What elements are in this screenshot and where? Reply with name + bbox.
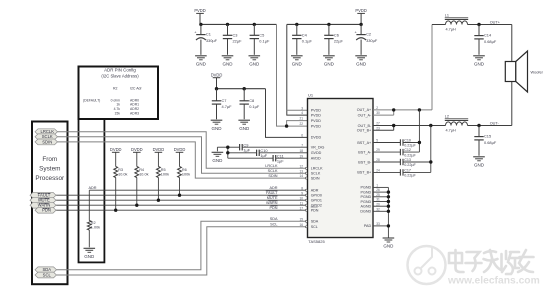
watermark logo circle <box>408 246 446 284</box>
junction OUT- / C15 <box>477 124 480 127</box>
tag WARN <box>30 202 56 208</box>
svg-text:OUT_A+: OUT_A+ <box>357 108 371 112</box>
inductor L1 4.7uH <box>445 13 468 31</box>
ground (C8) <box>238 120 250 131</box>
svg-text:C1: C1 <box>206 32 211 37</box>
ground (C2) <box>355 56 367 67</box>
tag SDA <box>35 267 57 273</box>
svg-text:GND: GND <box>324 61 335 66</box>
svg-text:OUT_B+: OUT_B+ <box>357 129 371 133</box>
svg-text:BST_A-: BST_A- <box>358 150 372 154</box>
pin numbers U1 right <box>376 106 380 226</box>
wire FAULT <box>56 194 308 196</box>
junction ground collector 5 <box>387 210 390 213</box>
svg-text:0.22µF: 0.22µF <box>404 144 416 148</box>
svg-text:4.7µF: 4.7µF <box>222 104 233 109</box>
wire PVDD rail 1 <box>200 24 308 126</box>
svg-text:24: 24 <box>376 169 380 173</box>
svg-text:PAD: PAD <box>364 224 372 228</box>
capacitor C13 0.22uF (BST_B-) <box>373 158 431 167</box>
svg-text:SDIN: SDIN <box>268 174 277 178</box>
net label PDN <box>269 206 277 210</box>
inductor L2 4.7uH <box>445 114 468 132</box>
svg-text:C5: C5 <box>259 32 264 37</box>
wire DVDD rail <box>217 89 308 138</box>
svg-text:6: 6 <box>301 134 303 138</box>
svg-text:DVDD: DVDD <box>153 147 165 152</box>
svg-text:C12: C12 <box>404 148 411 152</box>
annotation box From System Processor <box>32 122 68 285</box>
tag PDN <box>35 207 56 213</box>
resistor R6 100k <box>178 153 191 195</box>
svg-text:PDN: PDN <box>269 206 277 210</box>
svg-text:C6: C6 <box>334 32 339 37</box>
junction PVDD rail / C3 <box>226 23 229 26</box>
junction PVDD rail / C1 <box>199 23 202 26</box>
svg-text:16: 16 <box>299 223 303 227</box>
svg-text:4.7µH: 4.7µH <box>446 28 456 32</box>
svg-text:GND: GND <box>474 162 485 167</box>
net label WARN <box>266 201 278 205</box>
junction ground collector 3 <box>387 200 390 203</box>
svg-text:PGND: PGND <box>361 186 372 190</box>
svg-text:C17: C17 <box>404 168 411 172</box>
junction OUT_B pins tie <box>392 124 395 127</box>
svg-text:22µF: 22µF <box>334 39 344 44</box>
svg-text:PGND: PGND <box>361 190 372 194</box>
tag SCL <box>35 272 57 278</box>
svg-text:4: 4 <box>301 111 303 115</box>
net label FAULT <box>266 191 278 195</box>
svg-text:19: 19 <box>299 154 303 158</box>
svg-text:From: From <box>42 156 57 163</box>
junction bootstrap B / C13 <box>429 160 432 163</box>
svg-text:GVDD: GVDD <box>311 151 322 155</box>
svg-text:SDA: SDA <box>270 217 278 221</box>
power flag PVDD (left cluster) <box>194 8 205 24</box>
svg-text:(DEFAULT): (DEFAULT) <box>83 98 100 102</box>
svg-text:GND: GND <box>239 126 250 131</box>
svg-text:20: 20 <box>376 202 380 206</box>
svg-text:1µF: 1µF <box>277 158 284 163</box>
svg-text:PVDD: PVDD <box>311 124 322 128</box>
svg-text:SCL: SCL <box>43 272 52 277</box>
svg-text:R3: R3 <box>118 168 123 172</box>
svg-text:0.22µF: 0.22µF <box>404 174 416 178</box>
junction bootstrap A / C10 <box>418 141 421 144</box>
capacitor C10 0.22uF (BST_A+) <box>373 139 419 148</box>
svg-text:ADR PIN Config: ADR PIN Config <box>104 67 136 72</box>
svg-text:C4: C4 <box>302 32 308 37</box>
ground (C6) <box>323 56 335 67</box>
svg-text:100k: 100k <box>182 172 190 176</box>
junction OUT_A pins tie <box>392 108 395 111</box>
capacitor C17 0.22uF (BST_B+) <box>373 168 431 177</box>
svg-text:MUTE: MUTE <box>267 196 278 200</box>
svg-text:SDA: SDA <box>311 220 319 224</box>
svg-text:FAULT: FAULT <box>266 191 278 195</box>
net label SDA <box>270 217 278 221</box>
svg-text:U1: U1 <box>308 92 314 97</box>
capacitor C1 330uF (polarized) <box>194 24 217 54</box>
wire WARN <box>56 204 308 206</box>
capacitor C7 4.7uF <box>212 89 232 120</box>
svg-text:AGND: AGND <box>361 205 372 209</box>
svg-text:0.1µF: 0.1µF <box>259 39 270 44</box>
wire PDN <box>56 209 308 211</box>
junction OUT_B / bootstrap B <box>429 124 432 127</box>
svg-text:13: 13 <box>299 169 303 173</box>
svg-text:GPIO1: GPIO1 <box>311 199 322 203</box>
net label OUT- <box>490 121 500 125</box>
svg-text:PVDD: PVDD <box>311 119 322 123</box>
junction PVDD rail 2 / C2 <box>359 23 362 26</box>
net label OUT+ <box>490 20 501 24</box>
svg-text:PDN: PDN <box>311 209 319 213</box>
capacitor C2 330uF (polarized) <box>355 24 378 54</box>
power flag DVDD (R5) <box>153 147 165 153</box>
tag LRCLK <box>35 129 58 135</box>
svg-text:Processor: Processor <box>35 175 65 182</box>
junction R5 to wire <box>157 199 160 202</box>
capacitor C8 0.1uF <box>240 89 260 120</box>
svg-text:22µF: 22µF <box>233 39 243 44</box>
svg-text:GND: GND <box>212 126 223 131</box>
svg-text:330µF: 330µF <box>366 38 378 43</box>
svg-text:OUT+: OUT+ <box>490 20 501 24</box>
tag SCLK <box>35 134 58 140</box>
resistor R3 10.0k <box>114 153 128 210</box>
svg-text:33: 33 <box>376 222 380 226</box>
svg-text:8: 8 <box>301 186 303 190</box>
junction OUT_A / bootstrap A <box>418 108 421 111</box>
svg-text:23: 23 <box>376 126 380 130</box>
watermark url text <box>447 276 540 287</box>
wire GVDD <box>228 152 308 154</box>
svg-text:DVDD: DVDD <box>110 147 122 152</box>
junction DVDD rail / C8 <box>243 87 246 90</box>
svg-text:SCLK: SCLK <box>268 169 278 173</box>
wire AVDD <box>228 157 308 159</box>
svg-text:ADR: ADR <box>89 186 97 190</box>
svg-text:LRCLK: LRCLK <box>265 164 278 168</box>
svg-text:PVDD: PVDD <box>194 8 205 13</box>
svg-text:10.0k: 10.0k <box>139 172 148 176</box>
wire LRCLK <box>58 132 308 169</box>
junction C10 common <box>226 151 229 154</box>
ground (C9/C10/C11) <box>212 152 224 163</box>
junction ground collector 2 <box>387 195 390 198</box>
resistor R4 10.0k <box>135 153 149 205</box>
power flag PVDD (right cluster) <box>355 8 366 24</box>
wire MUTE <box>56 199 308 201</box>
svg-text:R5: R5 <box>161 168 166 172</box>
svg-text:C7: C7 <box>222 98 227 103</box>
op-amp U1 TAS5825 (class-D amplifier IC) <box>308 92 374 244</box>
svg-text:TAS5825: TAS5825 <box>308 239 325 244</box>
svg-text:10: 10 <box>299 196 303 200</box>
svg-text:1.00k: 1.00k <box>91 225 100 229</box>
svg-text:0.1µF: 0.1µF <box>249 104 260 109</box>
ground (R2) <box>84 248 96 259</box>
svg-text:BST_B-: BST_B- <box>358 160 372 164</box>
svg-text:0.22µF: 0.22µF <box>404 153 416 157</box>
svg-text:VR_DIG: VR_DIG <box>311 146 325 150</box>
junction R6 to wire <box>178 194 181 197</box>
svg-text:31: 31 <box>376 198 380 202</box>
svg-text:29: 29 <box>376 148 380 152</box>
junction ground collector 4 <box>387 205 390 208</box>
net label LRCLK <box>265 164 278 168</box>
net label SDIN <box>268 174 277 178</box>
wire VR_DIG <box>228 146 308 148</box>
resistor R5 100k <box>157 153 170 200</box>
wire SCL <box>57 227 308 275</box>
ground (U1 PAD) <box>383 238 395 249</box>
svg-text:C3: C3 <box>233 32 238 37</box>
svg-text:OUT-: OUT- <box>490 121 500 125</box>
svg-text:BST_A+: BST_A+ <box>357 141 371 145</box>
svg-text:GND: GND <box>383 244 394 249</box>
svg-text:DGND: DGND <box>360 210 371 214</box>
pin bubbles U1 left data pins <box>305 167 307 228</box>
svg-text:SCL: SCL <box>311 225 318 229</box>
svg-text:C10: C10 <box>404 139 411 143</box>
svg-text:PVDD: PVDD <box>311 109 322 113</box>
net label SCL <box>270 223 277 227</box>
power flag DVDD (decoupling cluster) <box>211 72 223 88</box>
svg-text:3: 3 <box>301 106 303 110</box>
svg-text:C2: C2 <box>366 32 371 37</box>
svg-text:AVDD: AVDD <box>311 157 321 161</box>
svg-text:R2: R2 <box>113 86 118 90</box>
wire speaker - <box>511 82 513 126</box>
svg-text:PVDD: PVDD <box>311 113 322 117</box>
svg-text:GND: GND <box>84 254 95 259</box>
watermark chinese characters <box>449 250 534 274</box>
ground (C7) <box>211 120 223 131</box>
svg-text:11: 11 <box>300 201 304 205</box>
svg-text:32: 32 <box>376 207 380 211</box>
wire SDIN <box>58 142 308 178</box>
wire OUT_A (to L1) <box>373 25 512 116</box>
svg-text:0.68µF: 0.68µF <box>484 39 497 44</box>
junction OUT+ / C14 <box>477 23 480 26</box>
svg-text:DVDD: DVDD <box>131 147 143 152</box>
svg-text:BST_B+: BST_B+ <box>357 171 371 175</box>
capacitor C9 1uF <box>240 142 251 152</box>
junction PVDD pins 21/22 <box>285 124 288 127</box>
svg-text:WARN: WARN <box>266 201 278 205</box>
svg-text:OUT_A-: OUT_A- <box>358 113 372 117</box>
svg-text:10.0k: 10.0k <box>118 172 127 176</box>
capacitor C11 1uF <box>273 153 284 163</box>
svg-text:0.68µF: 0.68µF <box>484 140 497 145</box>
wire SDA <box>57 221 308 269</box>
capacitor C12 0.22uF (BST_A-) <box>373 148 419 157</box>
ground (C15) <box>473 157 485 168</box>
net label SCLK <box>268 169 278 173</box>
svg-text:0.22µF: 0.22µF <box>404 163 416 167</box>
svg-text:C13: C13 <box>404 158 411 162</box>
capacitor C3 22uF <box>223 24 242 54</box>
svg-text:5: 5 <box>376 139 378 143</box>
svg-text:R4: R4 <box>139 168 144 172</box>
svg-text:SDIN: SDIN <box>42 139 52 144</box>
ground (C3) <box>222 56 234 67</box>
svg-text:GND: GND <box>356 61 367 66</box>
capacitor C14 0.68uF <box>474 25 497 55</box>
svg-text:C8: C8 <box>249 98 254 103</box>
svg-text:I2C Adr: I2C Adr <box>130 86 143 90</box>
svg-text:15: 15 <box>299 217 303 221</box>
svg-text:ADR: ADR <box>311 189 319 193</box>
annotation callout box around R2 <box>79 119 105 262</box>
svg-text:4.7µH: 4.7µH <box>446 129 456 133</box>
svg-text:0.1µF: 0.1µF <box>302 39 313 44</box>
svg-text:PVDD: PVDD <box>355 8 366 13</box>
capacitor C6 22uF <box>324 24 343 54</box>
svg-text:12: 12 <box>299 164 303 168</box>
svg-text:28: 28 <box>376 158 380 162</box>
wire bootstrap A vertical <box>418 110 420 152</box>
junction PVDD rail 2 / C4 <box>295 23 298 26</box>
svg-text:(I2C Slave Address): (I2C Slave Address) <box>101 73 139 78</box>
svg-text:SCL: SCL <box>270 223 277 227</box>
capacitor C15 0.68uF <box>474 126 497 156</box>
speaker Woofer <box>505 51 543 92</box>
wire ADR <box>89 190 307 220</box>
annotation box ADR PIN Config <box>79 67 159 120</box>
pin numbers U1 left <box>299 106 303 226</box>
ground (C4) <box>291 56 303 67</box>
svg-text:PGND: PGND <box>361 195 372 199</box>
net label MUTE <box>267 196 278 200</box>
svg-text:LRCLK: LRCLK <box>311 167 323 171</box>
svg-text:14: 14 <box>299 174 303 178</box>
wire PVDD rail 2 <box>287 24 361 115</box>
svg-text:SDIN: SDIN <box>311 176 320 180</box>
svg-text:100k: 100k <box>161 172 169 176</box>
svg-text:17: 17 <box>299 206 303 210</box>
svg-text:22: 22 <box>299 122 303 126</box>
tag SDIN <box>35 139 58 145</box>
svg-text:DVDD: DVDD <box>311 136 322 140</box>
svg-text:26: 26 <box>376 188 380 192</box>
svg-text:L2: L2 <box>445 114 449 118</box>
ground (C5) <box>249 56 261 67</box>
svg-text:9: 9 <box>301 191 303 195</box>
ground (C1) <box>195 56 207 67</box>
capacitor C10 1uF <box>257 148 269 158</box>
svg-text:Woofer: Woofer <box>531 70 544 75</box>
svg-text:www.elecfans.com: www.elecfans.com <box>447 276 540 287</box>
tag FAULT <box>30 192 56 198</box>
svg-text:GND: GND <box>249 61 260 66</box>
svg-text:ADR: ADR <box>269 186 277 190</box>
svg-text:OUT_B-: OUT_B- <box>358 124 372 128</box>
power flag DVDD (R4) <box>131 147 143 153</box>
wire speaker + <box>511 25 513 62</box>
svg-text:GND: GND <box>223 61 234 66</box>
svg-text:SCLK: SCLK <box>311 172 321 176</box>
net label ADR <box>269 186 277 190</box>
svg-text:18: 18 <box>299 149 303 153</box>
svg-text:C14: C14 <box>484 33 492 38</box>
capacitor C4 0.1uF <box>292 24 312 54</box>
svg-text:1: 1 <box>376 184 378 188</box>
svg-text:L1: L1 <box>445 13 449 17</box>
capacitor C5 0.1uF <box>250 24 270 54</box>
svg-text:1µF: 1µF <box>260 153 267 158</box>
resistor R2 1.00k <box>87 221 100 248</box>
junction PVDD rail / C5 <box>253 23 256 26</box>
svg-text:GND: GND <box>196 61 207 66</box>
ground (C14) <box>473 56 485 67</box>
power flag DVDD (R6) <box>174 147 186 153</box>
junction ground collector 6 <box>387 224 390 227</box>
svg-text:25: 25 <box>376 193 380 197</box>
junction PVDD rail 2 / C6 <box>327 23 330 26</box>
svg-text:C15: C15 <box>484 134 491 139</box>
junction C9 common <box>226 146 229 149</box>
junction R4 to wire <box>135 204 138 207</box>
tag MUTE <box>30 197 56 203</box>
svg-text:21: 21 <box>299 117 303 121</box>
power flag DVDD (R3) <box>110 147 122 153</box>
svg-text:15k: 15k <box>115 111 121 115</box>
svg-text:PGND: PGND <box>361 200 372 204</box>
svg-text:7: 7 <box>301 143 303 147</box>
svg-text:R6: R6 <box>182 168 187 172</box>
wire cap common to GND <box>217 147 227 158</box>
svg-text:1µF: 1µF <box>243 147 250 152</box>
svg-text:DVDD: DVDD <box>211 72 223 77</box>
svg-text:GND: GND <box>292 61 303 66</box>
net label ADR (at R2) <box>89 186 97 190</box>
svg-text:GND: GND <box>474 61 485 66</box>
wire PGND/AGND/DGND/PAD to ground <box>373 187 388 238</box>
wire OUT_B (to L2) <box>373 126 512 131</box>
junction ground collector 1 <box>387 190 390 193</box>
wire SCLK <box>58 137 308 173</box>
wire bootstrap B vertical <box>430 126 432 173</box>
svg-text:GPIO0: GPIO0 <box>311 194 322 198</box>
svg-text:GND: GND <box>212 158 223 163</box>
svg-text:ADR3: ADR3 <box>130 111 139 115</box>
svg-text:330µF: 330µF <box>206 38 218 43</box>
svg-text:System: System <box>39 165 60 172</box>
junction R3 to wire <box>114 209 117 212</box>
junction DVDD rail / C7 <box>215 87 218 90</box>
svg-text:DVDD: DVDD <box>174 147 186 152</box>
